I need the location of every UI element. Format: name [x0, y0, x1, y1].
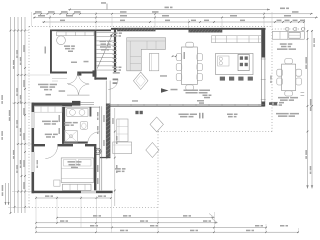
- entry door arc west: [68, 84, 78, 94]
- thick hatched terrace wall: [106, 104, 111, 158]
- top dimension chain line 3: [33, 17, 318, 19]
- right rotated dimension texts: [305, 57, 307, 64]
- terrace diamond chair 1: [150, 117, 163, 132]
- outdoor table rotated label: [270, 76, 272, 80]
- corridor thin wall lines above terrace wall: [105, 81, 107, 104]
- facade section marks and labels: [198, 113, 201, 119]
- pantry door swing arc west: [67, 73, 77, 83]
- left witness extension lines: [12, 30, 29, 32]
- tiny labels near pantry door: [71, 62, 77, 64]
- top dimension chain line 1: [68, 9, 270, 11]
- bathroom north wall line: [65, 106, 100, 108]
- entry pier: [72, 101, 80, 106]
- top level marker symbol: [106, 4, 108, 10]
- exterior wall top left section: [50, 30, 111, 32]
- wing south window double lines: [81, 190, 96, 192]
- wing west window: [31, 152, 33, 172]
- exterior wall top right section: [111, 28, 266, 30]
- small labels next to stairs: [112, 32, 117, 34]
- entry door arc east: [79, 84, 90, 95]
- dining table: [182, 47, 198, 85]
- door arc from landing to living area: [108, 80, 118, 90]
- exterior wall east thick section: [261, 28, 265, 58]
- wing south wall west segment: [32, 191, 82, 194]
- bottom dimension chain line 2: [36, 222, 218, 224]
- stair treads: [96, 32, 114, 34]
- bottom witness extension lines: [35, 196, 37, 233]
- wardrobe: [62, 184, 91, 190]
- bathroom west wall: [63, 107, 65, 144]
- outdoor dining chairs: [285, 59, 293, 64]
- far left margin texts: [1, 95, 3, 100]
- bottom dimension chain line 4: [36, 231, 299, 233]
- terrace couch: [117, 119, 128, 142]
- wing west wall upper: [32, 103, 35, 112]
- dashed roof overhang boundary top: [29, 25, 272, 27]
- bedroom label: [68, 161, 76, 163]
- right dimension chain lines: [307, 30, 309, 189]
- stair label text: [100, 41, 107, 43]
- stair wall junction block: [93, 70, 97, 76]
- stair direction line: [97, 34, 112, 69]
- bedroom north wall segments: [32, 144, 46, 146]
- top dimension chain line 4: [42, 21, 305, 23]
- exterior wall southeast corner pier: [261, 102, 265, 107]
- bedroom east wall: [94, 146, 96, 190]
- east window double lines: [261, 58, 263, 103]
- bathroom door swing arc: [88, 132, 100, 144]
- built-in wardrobe band on top wall east: [189, 29, 223, 32]
- living dining room label: [184, 90, 199, 92]
- outdoor table bottom labels: [278, 97, 289, 99]
- landing wall south of stairs: [94, 78, 107, 80]
- radiator bars next to stairs: [113, 42, 117, 43]
- pantry south wall pier: [77, 72, 81, 76]
- bedroom stool: [54, 180, 60, 186]
- dashed roof overhang boundary inner vertical: [157, 132, 159, 208]
- outdoor kitchen label: [280, 43, 287, 45]
- technik room east wall: [62, 107, 64, 144]
- tiny label above facade: [132, 100, 138, 102]
- tiny dim line left of dining chairs: [172, 55, 177, 57]
- bottom left corner dimension arrows: [5, 183, 7, 205]
- section marker triangle in living room: [161, 88, 169, 93]
- terrace diamond chair 2: [146, 143, 159, 158]
- stair west wall: [94, 30, 96, 80]
- wing west window upper: [31, 112, 33, 128]
- interior dimension line on terrace: [114, 108, 116, 206]
- terrace wall end cap: [100, 157, 111, 158]
- top witness extension lines: [31, 12, 33, 26]
- bath rotated dim text: [59, 115, 61, 122]
- entry threshold line: [67, 94, 90, 96]
- wing south wall east segment: [96, 191, 113, 194]
- technik room label: [42, 121, 51, 123]
- pantry room label: [64, 45, 70, 47]
- south glass facade double lines: [106, 104, 264, 106]
- pantry south wall west segment: [50, 72, 67, 74]
- dark marks below radiator: [113, 79, 119, 81]
- bottom dimension chain line 1: [57, 217, 215, 219]
- terrace lounge table: [113, 142, 132, 154]
- dashed roof overhang boundary left: [28, 26, 30, 207]
- east patio step marks: [269, 102, 272, 105]
- dashed annex boundary top: [272, 28, 305, 30]
- terrace step marks below facade: [135, 111, 138, 114]
- technik appliance counter: [34, 106, 62, 112]
- coffee table diamond: [133, 72, 148, 89]
- storage room label: [38, 84, 49, 86]
- dashed roof overhang boundary bottom: [29, 207, 158, 209]
- left rotated dimension texts: [9, 110, 11, 116]
- bedroom door swing arc: [45, 146, 57, 158]
- bed: [61, 158, 93, 183]
- bottom dimension chain line 3: [36, 227, 267, 229]
- bottom inner dimension line under bedroom: [36, 197, 112, 199]
- left dimension ticks: [10, 30, 12, 32]
- outdoor kitchen circles: [285, 27, 289, 31]
- built-in wardrobe band on top wall west: [117, 28, 156, 31]
- armchair rectangle: [149, 53, 158, 70]
- tiny dim text above facade: [197, 100, 204, 102]
- fireplace stove circles: [95, 148, 101, 154]
- top dimension chain line 2: [33, 13, 313, 15]
- hall label: [59, 90, 66, 92]
- left dimension chain lines: [10, 17, 12, 213]
- bathroom east wall stub: [90, 107, 92, 117]
- terrace label: [115, 168, 121, 170]
- pantry rotated dim text at wall: [45, 47, 47, 54]
- pantry counter row: [57, 32, 95, 36]
- exterior wall west of pantry room: [50, 30, 52, 74]
- stair east wall: [114, 28, 116, 72]
- thin double wall below terrace wall: [99, 106, 101, 190]
- storage room shelf lines: [52, 78, 67, 80]
- outdoor kitchen counter: [272, 31, 304, 39]
- facade mullion ticks: [117, 104, 119, 107]
- outdoor area tick marks: [301, 92, 305, 94]
- outdoor dining table: [282, 64, 296, 91]
- pantry door swing arc east: [78, 73, 88, 83]
- shower: [64, 131, 77, 143]
- dashed roof overhang boundary right: [271, 26, 273, 131]
- kitchen island: [216, 53, 253, 74]
- dashed roof overhang boundary inner horizontal: [158, 131, 272, 133]
- kitchen wall cabinet row: [212, 36, 262, 43]
- corridor dimension speckle: [97, 112, 99, 116]
- toilet: [80, 122, 88, 130]
- bathroom label: [64, 122, 71, 124]
- dining chairs: [186, 42, 194, 47]
- bathroom washbasin counter: [67, 109, 88, 117]
- pantry south wall east segment: [81, 72, 92, 74]
- bathroom south wall: [63, 142, 87, 144]
- wing north wall west section: [32, 103, 73, 107]
- L-shaped sofa: [127, 38, 166, 71]
- wing west wall lower: [32, 172, 35, 193]
- island bar stools: [220, 77, 225, 81]
- pantry circle fixture: [57, 36, 66, 45]
- floor label F1: [160, 75, 167, 77]
- wing north window double lines: [80, 101, 94, 103]
- bedroom rotated dim text: [37, 160, 39, 164]
- wing west wall middle: [32, 128, 35, 152]
